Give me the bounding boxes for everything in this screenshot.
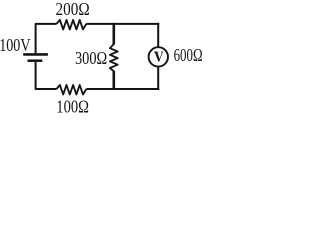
svg-text:200Ω: 200Ω — [56, 0, 90, 19]
wire right-bottom segment — [157, 67, 159, 90]
label 100Ω — [56, 97, 89, 117]
label 100V — [0, 35, 30, 55]
wire top-left segment — [36, 24, 57, 53]
label 300Ω — [75, 48, 107, 68]
wire right-top segment — [157, 23, 159, 47]
wire middle-branch lower segment — [113, 71, 116, 89]
label 600Ω — [174, 45, 203, 65]
wire left-bottom segment — [36, 62, 57, 89]
voltmeter V glyph — [154, 52, 163, 62]
voltmeter U1 circle — [149, 47, 168, 66]
resistor 200Ω zigzag — [57, 20, 87, 30]
node top junction — [113, 23, 116, 45]
battery 100V plates — [23, 54, 48, 60]
wire bottom-right segment — [86, 88, 159, 90]
wire top-right segment — [86, 23, 159, 25]
label 200Ω — [56, 0, 90, 19]
svg-text:100V: 100V — [0, 35, 30, 55]
svg-text:300Ω: 300Ω — [75, 48, 107, 68]
resistor 100Ω zigzag — [57, 85, 87, 95]
resistor 300Ω zigzag — [110, 44, 118, 71]
svg-text:600Ω: 600Ω — [174, 45, 203, 65]
svg-text:100Ω: 100Ω — [56, 97, 89, 117]
